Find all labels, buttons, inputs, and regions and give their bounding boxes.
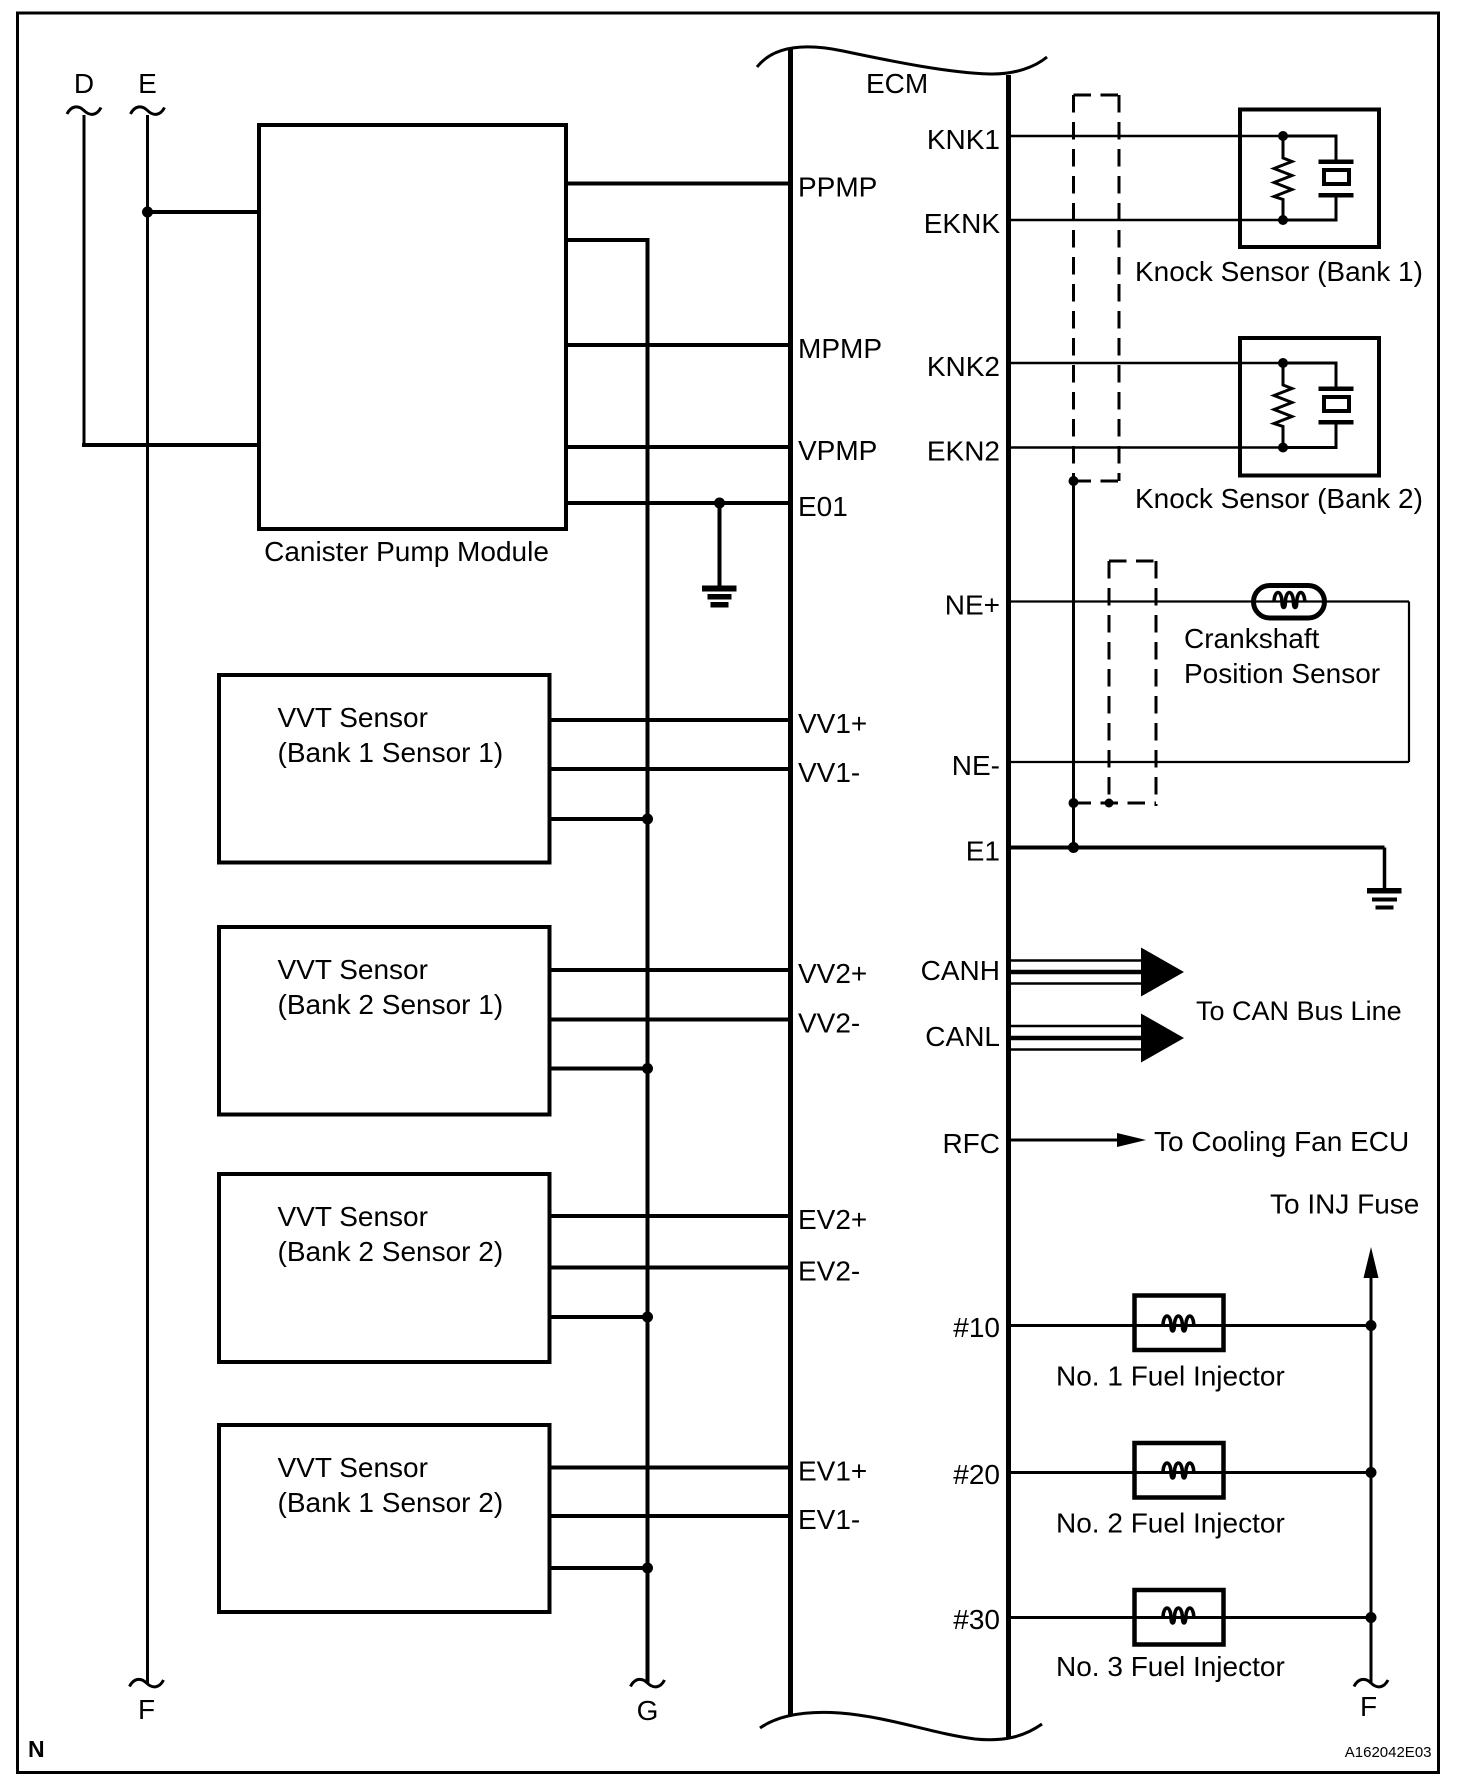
svg-text:VPMP: VPMP [798, 435, 877, 466]
svg-text:E1: E1 [966, 836, 1000, 867]
svg-text:EV1-: EV1- [798, 1504, 860, 1535]
svg-text:Position Sensor: Position Sensor [1184, 658, 1380, 689]
svg-text:E: E [138, 68, 157, 99]
svg-text:D: D [74, 68, 94, 99]
svg-text:#10: #10 [953, 1312, 1000, 1343]
svg-text:CANH: CANH [921, 955, 1000, 986]
svg-text:MPMP: MPMP [798, 333, 882, 364]
svg-text:VV1-: VV1- [798, 757, 860, 788]
svg-text:#20: #20 [953, 1459, 1000, 1490]
svg-text:KNK1: KNK1 [927, 124, 1000, 155]
svg-text:EV1+: EV1+ [798, 1456, 867, 1487]
svg-text:RFC: RFC [942, 1128, 1000, 1159]
svg-text:G: G [637, 1695, 659, 1726]
svg-text:KNK2: KNK2 [927, 351, 1000, 382]
svg-text:VVT Sensor: VVT Sensor [278, 702, 428, 733]
svg-text:NE+: NE+ [945, 590, 1000, 621]
svg-text:VVT Sensor: VVT Sensor [278, 1452, 428, 1483]
svg-text:PPMP: PPMP [798, 172, 877, 203]
svg-text:NE-: NE- [952, 750, 1000, 781]
svg-text:EV2+: EV2+ [798, 1204, 867, 1235]
svg-text:No. 2 Fuel Injector: No. 2 Fuel Injector [1056, 1508, 1285, 1539]
svg-text:(Bank 2 Sensor 2): (Bank 2 Sensor 2) [278, 1236, 504, 1267]
svg-text:VVT Sensor: VVT Sensor [278, 954, 428, 985]
svg-text:(Bank 2 Sensor 1): (Bank 2 Sensor 1) [278, 989, 504, 1020]
svg-text:Knock Sensor (Bank 2): Knock Sensor (Bank 2) [1135, 483, 1423, 514]
svg-text:No. 3 Fuel Injector: No. 3 Fuel Injector [1056, 1651, 1285, 1682]
svg-text:F: F [138, 1694, 155, 1725]
svg-text:VV2-: VV2- [798, 1008, 860, 1039]
svg-text:Canister Pump Module: Canister Pump Module [264, 536, 549, 567]
svg-text:VV1+: VV1+ [798, 708, 867, 739]
svg-text:EKNK: EKNK [924, 208, 1001, 239]
svg-text:E01: E01 [798, 491, 848, 522]
svg-text:EV2-: EV2- [798, 1256, 860, 1287]
svg-text:Crankshaft: Crankshaft [1184, 623, 1320, 654]
svg-text:EKN2: EKN2 [927, 436, 1000, 467]
svg-text:F: F [1360, 1691, 1377, 1722]
svg-text:To CAN Bus Line: To CAN Bus Line [1196, 996, 1402, 1026]
svg-text:N: N [28, 1736, 45, 1762]
svg-text:A162042E03: A162042E03 [1345, 1744, 1432, 1761]
svg-text:(Bank 1 Sensor 1): (Bank 1 Sensor 1) [278, 737, 504, 768]
svg-text:ECM: ECM [866, 68, 928, 99]
svg-text:CANL: CANL [925, 1021, 1000, 1052]
svg-text:Knock Sensor (Bank 1): Knock Sensor (Bank 1) [1135, 256, 1423, 287]
svg-text:VVT Sensor: VVT Sensor [278, 1201, 428, 1232]
svg-text:#30: #30 [953, 1604, 1000, 1635]
svg-text:To INJ Fuse: To INJ Fuse [1270, 1189, 1419, 1220]
svg-text:No. 1 Fuel Injector: No. 1 Fuel Injector [1056, 1361, 1285, 1392]
svg-text:VV2+: VV2+ [798, 958, 867, 989]
svg-text:To Cooling Fan ECU: To Cooling Fan ECU [1154, 1126, 1409, 1157]
svg-text:(Bank 1 Sensor 2): (Bank 1 Sensor 2) [278, 1487, 504, 1518]
